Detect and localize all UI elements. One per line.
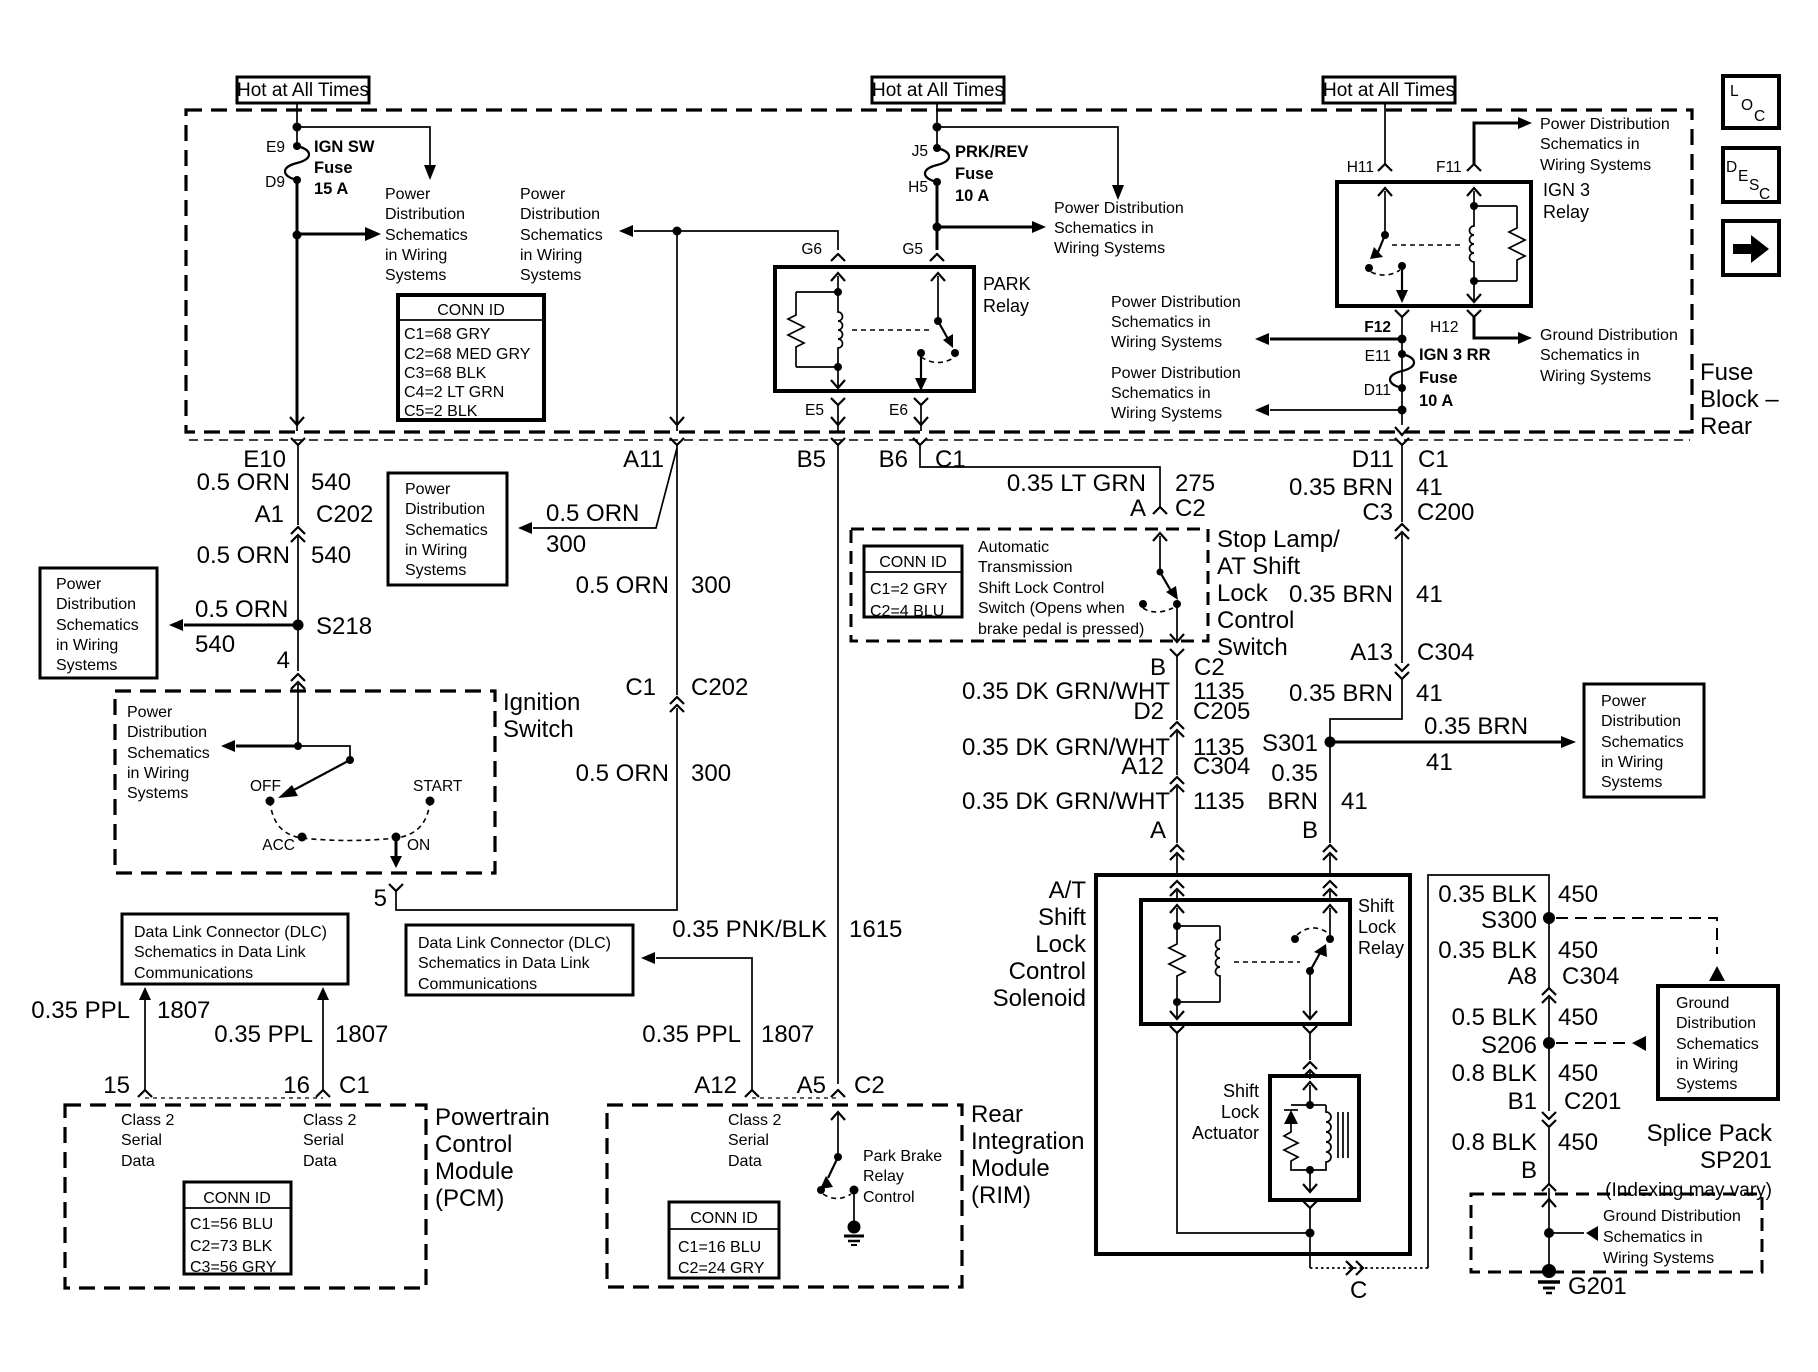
conn id table (PCM) <box>184 1182 291 1276</box>
svg-text:Schematics in: Schematics in <box>1603 1229 1703 1246</box>
wire: arrow left to Power Distribution (ignition switch) <box>221 740 298 752</box>
svg-text:S206: S206 <box>1481 1032 1537 1059</box>
pin label B (solenoid) <box>1302 817 1318 844</box>
svg-text:OFF: OFF <box>250 778 281 795</box>
pin labels C3 / C200 <box>1362 499 1474 526</box>
ground symbol inside RIM <box>844 1190 864 1245</box>
svg-text:ON: ON <box>407 837 430 854</box>
svg-text:Automatic: Automatic <box>978 539 1049 556</box>
svg-text:Integration: Integration <box>971 1128 1084 1155</box>
wire: fuse output down to G5 (bold) <box>936 182 939 250</box>
svg-text:450: 450 <box>1558 1129 1598 1156</box>
svg-text:Schematics in: Schematics in <box>1540 347 1640 364</box>
svg-text:Ground Distribution: Ground Distribution <box>1540 327 1678 344</box>
svg-text:C304: C304 <box>1417 639 1474 666</box>
svg-text:41: 41 <box>1416 474 1443 501</box>
svg-text:450: 450 <box>1558 1004 1598 1031</box>
wire: solenoid return to connector C (dotted) <box>1310 1267 1428 1269</box>
svg-text:C2=4 BLU: C2=4 BLU <box>870 603 944 620</box>
svg-text:A12: A12 <box>694 1072 737 1099</box>
stop lamp switch entry arrow <box>1153 533 1167 572</box>
park brake relay control switch entry arrow <box>831 1112 845 1157</box>
pin labels A12 / C304 <box>1121 753 1250 780</box>
wire label 0.8 BLK 450 (upper) <box>1452 1060 1598 1087</box>
svg-text:Systems: Systems <box>1601 774 1662 791</box>
svg-text:Splice Pack: Splice Pack <box>1647 1120 1773 1147</box>
svg-text:Fuse: Fuse <box>955 165 994 183</box>
svg-text:Wiring Systems: Wiring Systems <box>1603 1250 1714 1267</box>
junction node D11 <box>1398 406 1407 415</box>
svg-text:Lock: Lock <box>1221 1102 1260 1122</box>
wire label 0.35 DK GRN/WHT 1135 (middle) <box>962 734 1245 761</box>
ground G201 <box>1538 1264 1627 1300</box>
actuator resistor <box>1284 1124 1310 1170</box>
svg-text:0.35 PPL: 0.35 PPL <box>642 1021 741 1048</box>
park relay: component box <box>775 267 974 391</box>
wire: Hot1 feed down into fuse block <box>296 103 298 146</box>
svg-text:0.8 BLK: 0.8 BLK <box>1452 1129 1537 1156</box>
svg-text:Switch: Switch <box>503 716 574 743</box>
svg-text:Schematics in: Schematics in <box>1054 220 1154 237</box>
shift lock relay: component box <box>1141 900 1350 1024</box>
svg-text:0.5 ORN: 0.5 ORN <box>546 500 639 527</box>
wire: branch right to Power Distribution (down arrow) <box>937 127 1124 200</box>
svg-text:0.35 PPL: 0.35 PPL <box>214 1021 313 1048</box>
wire: ON output arrow down <box>390 841 402 868</box>
svg-text:START: START <box>413 778 463 795</box>
splice S301 <box>1262 730 1336 757</box>
pin labels D2 / C205 <box>1133 698 1250 725</box>
shift lock relay resistor <box>1169 926 1185 1002</box>
IGN3 relay: H11 feed from Hot3 <box>1384 103 1386 164</box>
svg-text:Schematics: Schematics <box>1601 734 1684 751</box>
splice S206 <box>1481 1032 1555 1059</box>
ign3 relay switch output arrow (to F12) <box>1396 266 1408 303</box>
park brake switch pivot and blade <box>820 1153 842 1189</box>
svg-text:Wiring Systems: Wiring Systems <box>1111 405 1222 422</box>
connector pins into RIM <box>745 1090 845 1098</box>
svg-text:in Wiring: in Wiring <box>127 765 189 782</box>
svg-text:0.5 ORN: 0.5 ORN <box>197 469 290 496</box>
svg-text:Lock: Lock <box>1358 917 1397 937</box>
dashed reference from S300 to Ground Distribution box <box>1556 918 1725 981</box>
contact ACC <box>262 833 306 855</box>
in-line connector C201 (B1, pointing down) <box>1542 1112 1556 1184</box>
svg-text:ACC: ACC <box>262 837 295 854</box>
wire: arrow right to Power Distribution <box>297 227 381 241</box>
pin label H5 <box>908 179 928 196</box>
svg-text:in Wiring: in Wiring <box>1676 1056 1738 1073</box>
note text: Power Distribution Schematics in Wiring Systems (middle) <box>1054 200 1184 257</box>
svg-text:275: 275 <box>1175 470 1215 497</box>
svg-text:CONN ID: CONN ID <box>203 1190 271 1207</box>
note text: Power Distribution Schematics in Wiring Systems (ign3 lower) <box>1111 365 1241 422</box>
contact START <box>413 778 463 806</box>
label box: Hot at All Times (middle) <box>872 77 1004 103</box>
wire label 0.35 PPL 1807 (A12) <box>642 1021 814 1048</box>
svg-text:0.35 BRN: 0.35 BRN <box>1424 713 1528 740</box>
svg-text:540: 540 <box>311 469 351 496</box>
stop lamp switch output arrow <box>1170 604 1184 642</box>
svg-text:F12: F12 <box>1364 319 1391 336</box>
in-line connector C304 (A8) <box>1542 988 1556 1111</box>
shift lock relay actuation dashed link <box>1234 961 1300 963</box>
svg-text:0.35 BLK: 0.35 BLK <box>1438 881 1537 908</box>
A/T shift lock control solenoid: component box <box>1096 875 1410 1254</box>
svg-text:0.35 BRN: 0.35 BRN <box>1289 680 1393 707</box>
svg-text:Power: Power <box>520 186 566 203</box>
svg-text:S: S <box>1749 177 1759 194</box>
shift lock relay name label <box>1358 896 1404 958</box>
shift lock relay coil exit arrow <box>1170 1002 1184 1019</box>
wire label 0.5 BLK 450 <box>1452 1004 1598 1031</box>
svg-text:Switch: Switch <box>1217 634 1288 661</box>
connector E10 (fuse block C1) <box>291 438 305 525</box>
svg-text:C2: C2 <box>854 1072 885 1099</box>
wire: S301 arrow right to Power Distribution <box>1330 713 1576 776</box>
pin labels B1 / C201 <box>1508 1088 1622 1115</box>
svg-text:15: 15 <box>103 1072 130 1099</box>
svg-text:Distribution: Distribution <box>385 206 465 223</box>
shift lock relay switch top contact, open contact and travel arc <box>1291 928 1334 943</box>
svg-text:Schematics in Data Link: Schematics in Data Link <box>418 955 591 972</box>
value label: PRK/REV Fuse 10 A <box>955 143 1028 205</box>
svg-text:C: C <box>1754 108 1765 125</box>
svg-text:0.35 BLK: 0.35 BLK <box>1438 937 1537 964</box>
shift lock relay coil node (top) <box>1173 922 1181 930</box>
shift lock actuator: component box <box>1270 1076 1359 1200</box>
svg-text:Systems: Systems <box>520 267 581 284</box>
pin label E9 <box>266 139 285 156</box>
svg-text:0.35 PPL: 0.35 PPL <box>31 997 130 1024</box>
svg-text:Class 2: Class 2 <box>303 1112 356 1129</box>
svg-text:Serial: Serial <box>303 1132 344 1149</box>
wire: to rotor pivot <box>298 746 354 764</box>
svg-text:BRN: BRN <box>1267 788 1318 815</box>
svg-text:Lock: Lock <box>1035 931 1087 958</box>
svg-text:C304: C304 <box>1193 753 1250 780</box>
svg-text:Control: Control <box>435 1131 512 1158</box>
svg-text:G201: G201 <box>1568 1273 1627 1300</box>
label box: Hot at All Times (left) <box>237 77 369 103</box>
pin label 15 <box>103 1072 130 1099</box>
wire label 0.5 ORN 540 (above C202) <box>197 469 351 496</box>
svg-text:IGN SW: IGN SW <box>314 138 375 156</box>
svg-text:Data Link Connector (DLC): Data Link Connector (DLC) <box>418 935 611 952</box>
svg-text:O: O <box>1741 97 1753 114</box>
svg-text:C5=2 BLK: C5=2 BLK <box>404 403 478 420</box>
nav box LOC <box>1723 76 1779 128</box>
pin label E11 <box>1365 348 1391 365</box>
svg-text:1807: 1807 <box>761 1021 814 1048</box>
svg-text:C3=56 GRY: C3=56 GRY <box>190 1259 277 1276</box>
actuator coil <box>1310 1105 1331 1170</box>
svg-text:Communications: Communications <box>134 965 253 982</box>
svg-text:C2=24 GRY: C2=24 GRY <box>678 1260 765 1277</box>
connector G5 (park relay) <box>902 241 944 261</box>
note text: Ground Distribution Schematics in Wiring Systems (right) <box>1540 327 1678 385</box>
svg-text:Shift: Shift <box>1358 896 1394 916</box>
connector pins into PCM <box>138 1090 330 1098</box>
note text: Class 2 Serial Data (pin 15) <box>121 1112 174 1170</box>
wire: up right side to splice pack <box>1428 875 1549 1268</box>
ign3 relay coil <box>1470 206 1517 281</box>
wire label 0.35 PPL 1807 (pin 16) <box>214 1021 388 1048</box>
connector A11 (fuse block C1) <box>623 438 684 695</box>
svg-text:Systems: Systems <box>127 785 188 802</box>
fuse block rear: name label <box>1700 359 1779 440</box>
svg-text:300: 300 <box>691 760 731 787</box>
splice S300 <box>1481 907 1555 934</box>
wire label 0.35 BLK 450 (second) <box>1438 937 1598 964</box>
in-line connector at solenoid pin A <box>1170 845 1184 877</box>
svg-text:41: 41 <box>1341 788 1368 815</box>
pin label A12 (RIM) <box>694 1072 737 1099</box>
shift lock relay switch entry arrow <box>1323 905 1337 939</box>
svg-text:Control: Control <box>1217 607 1294 634</box>
wire: A13 down, jog left to S301 <box>1330 679 1402 737</box>
wire: E5 crossing arrow at fuse block bottom <box>831 417 845 431</box>
svg-text:S218: S218 <box>316 613 372 640</box>
connector G6 (park relay) <box>801 241 845 261</box>
shift lock relay switch output arrow <box>1303 971 1317 1019</box>
svg-text:Control: Control <box>863 1189 915 1206</box>
wire: crossing arrow at fuse block bottom (E10) <box>290 417 304 431</box>
splice pack entry arrow <box>1542 1199 1556 1207</box>
svg-text:C2=73 BLK: C2=73 BLK <box>190 1238 273 1255</box>
ign3 relay switch entry arrow <box>1378 188 1392 235</box>
svg-text:Power Distribution: Power Distribution <box>1540 116 1670 133</box>
svg-text:Distribution: Distribution <box>127 724 207 741</box>
connector F11 (ign3 relay) <box>1436 159 1481 176</box>
connector below relay (coil side) <box>1170 1026 1306 1233</box>
splice pack name label <box>1605 1120 1773 1201</box>
note text: Class 2 Serial Data (RIM) <box>728 1112 781 1170</box>
ign3 relay coil node (top) <box>1470 202 1478 210</box>
svg-text:A8: A8 <box>1508 963 1537 990</box>
svg-text:C1: C1 <box>1418 446 1449 473</box>
ign3 relay name label <box>1543 180 1590 222</box>
ign3 relay resistor <box>1509 206 1525 281</box>
ignition switch rotor arm (arrow to OFF) <box>278 760 350 798</box>
connector B entering splice pack <box>1542 1184 1556 1271</box>
in-line connector C202 (C1) <box>670 697 684 712</box>
svg-text:IGN 3: IGN 3 <box>1543 180 1590 200</box>
svg-text:Rear: Rear <box>1700 413 1752 440</box>
svg-text:S301: S301 <box>1262 730 1318 757</box>
svg-text:Fuse: Fuse <box>1700 359 1753 386</box>
svg-text:C1: C1 <box>935 446 966 473</box>
svg-text:450: 450 <box>1558 937 1598 964</box>
svg-text:0.5 ORN: 0.5 ORN <box>197 542 290 569</box>
ign3 relay: component box <box>1337 182 1531 306</box>
svg-text:C304: C304 <box>1562 963 1619 990</box>
in-line connector C304 (A13) <box>1395 664 1409 679</box>
wire: crossing arrow at fuse block bottom (D11) <box>1395 427 1409 435</box>
svg-text:B1: B1 <box>1508 1088 1537 1115</box>
wire (S218 down) + pin label 4 <box>277 627 298 674</box>
shift lock actuator name label <box>1192 1081 1260 1143</box>
svg-text:B: B <box>1521 1157 1537 1184</box>
junction node above PRK/REV fuse <box>933 123 942 132</box>
svg-text:0.5 BLK: 0.5 BLK <box>1452 1004 1537 1031</box>
park relay coil node (bottom) <box>834 363 842 371</box>
svg-text:0.35 DK GRN/WHT: 0.35 DK GRN/WHT <box>962 788 1170 815</box>
junction node F12/E11 <box>1398 335 1407 344</box>
note box: Power Distribution Schematics in Wiring Systems (boxed, far left) <box>40 568 157 678</box>
svg-text:Schematics in Data Link: Schematics in Data Link <box>134 944 307 961</box>
park relay coil exit arrow <box>831 367 845 388</box>
svg-text:16: 16 <box>283 1072 310 1099</box>
in-line connector C205 <box>1170 722 1184 775</box>
RIM: dashed boundary box <box>607 1105 962 1287</box>
wire label 0.35 LT GRN 275 <box>1007 470 1215 497</box>
note text: Ground Distribution Schematics in Wiring Systems (in splice pack) <box>1603 1208 1741 1267</box>
svg-text:0.8 BLK: 0.8 BLK <box>1452 1060 1537 1087</box>
svg-text:Transmission: Transmission <box>978 559 1073 576</box>
wire label 0.5 ORN 300 (below C202 pin C1) <box>576 760 731 787</box>
in-line connector at ignition switch pin 4 <box>291 674 305 746</box>
stop lamp switch lower contact and actuator dot <box>1139 600 1181 612</box>
connector A / C2 (stop lamp switch) <box>1130 495 1206 522</box>
svg-text:Power Distribution: Power Distribution <box>1111 294 1241 311</box>
svg-text:C202: C202 <box>316 501 373 528</box>
svg-text:CONN ID: CONN ID <box>437 302 505 319</box>
svg-text:Module: Module <box>435 1158 514 1185</box>
svg-text:in Wiring: in Wiring <box>520 247 582 264</box>
svg-text:Distribution: Distribution <box>56 596 136 613</box>
svg-text:Ground: Ground <box>1676 995 1729 1012</box>
pin labels A13 / C304 <box>1350 639 1474 666</box>
wire: S218 branch left arrow to Power Distribution <box>169 596 298 658</box>
svg-text:540: 540 <box>195 631 235 658</box>
svg-text:Communications: Communications <box>418 976 537 993</box>
ignition switch: dashed boundary box <box>115 691 495 873</box>
fuse F-E9/D9: IGN SW Fuse 15 A <box>285 142 309 184</box>
svg-text:0.5 ORN: 0.5 ORN <box>576 760 669 787</box>
svg-text:E5: E5 <box>805 402 824 419</box>
wire: A11 feed inside fuse block down to border <box>676 231 678 424</box>
svg-text:1807: 1807 <box>335 1021 388 1048</box>
svg-text:Shift: Shift <box>1223 1081 1259 1101</box>
wire: branch right to Power Distribution (down arrow) <box>297 127 436 180</box>
svg-text:300: 300 <box>691 572 731 599</box>
svg-text:S300: S300 <box>1481 907 1537 934</box>
pin label J5 <box>912 143 928 160</box>
ign3 relay switch contacts and travel arc <box>1365 262 1406 275</box>
in-line connector C304 (A12) <box>1170 777 1184 843</box>
svg-text:Power: Power <box>385 186 431 203</box>
svg-text:C1=68 GRY: C1=68 GRY <box>404 326 491 343</box>
svg-text:Park Brake: Park Brake <box>863 1148 942 1165</box>
wire label 0.35 PNK/BLK 1615 (B5 wire) <box>672 916 902 943</box>
pin label D9 <box>265 174 285 191</box>
pin label A (solenoid) <box>1150 817 1166 844</box>
svg-text:C3: C3 <box>1362 499 1393 526</box>
svg-text:Hot at All Times: Hot at All Times <box>1323 80 1455 101</box>
connector D11 / C1 (fuse block) <box>1352 438 1449 522</box>
svg-text:H11: H11 <box>1347 159 1374 176</box>
svg-text:B: B <box>1150 654 1166 681</box>
svg-text:0.35: 0.35 <box>1271 760 1318 787</box>
svg-text:A1: A1 <box>255 501 284 528</box>
reference arrow to Ground Distribution text <box>1549 1226 1598 1241</box>
fuse F-E11/D11: IGN 3 RR Fuse 10 A <box>1390 350 1414 392</box>
junction node above IGN SW fuse <box>293 123 302 132</box>
park relay switch pivot and blade <box>934 317 953 348</box>
wire: Hot2 feed down <box>936 103 938 148</box>
switch travel dashed arc OFF-ACC-ON-START <box>270 801 430 841</box>
PCM name label <box>435 1104 550 1212</box>
svg-text:A13: A13 <box>1350 639 1393 666</box>
svg-text:Fuse: Fuse <box>314 159 353 177</box>
svg-text:E9: E9 <box>266 139 285 156</box>
svg-text:Switch (Opens when: Switch (Opens when <box>978 600 1125 617</box>
svg-text:Systems: Systems <box>1676 1076 1737 1093</box>
svg-text:Schematics: Schematics <box>385 227 468 244</box>
splice S218 <box>293 613 373 640</box>
pin labels A5 / C2 (RIM) <box>797 1072 885 1099</box>
svg-text:Class 2: Class 2 <box>728 1112 781 1129</box>
svg-text:4: 4 <box>277 647 290 674</box>
connector: ignition switch pin 5 <box>374 708 677 912</box>
svg-text:E11: E11 <box>1365 348 1391 365</box>
wire label 0.5 ORN 300 (above C202 pin C1) <box>576 572 731 599</box>
svg-text:5: 5 <box>374 885 387 912</box>
park relay actuation dashed link <box>852 329 933 331</box>
svg-text:Systems: Systems <box>385 267 446 284</box>
in-line connector C <box>1346 1261 1367 1304</box>
conn id table (fuse block) <box>398 295 544 420</box>
ign3 relay coil entry arrow <box>1467 188 1481 206</box>
svg-text:Hot at All Times: Hot at All Times <box>237 80 369 101</box>
svg-text:A11: A11 <box>623 446 664 473</box>
svg-text:IGN 3 RR: IGN 3 RR <box>1419 346 1491 364</box>
svg-text:Power: Power <box>127 704 173 721</box>
note box: Data Link Connector (DLC) Schematics (left) <box>122 914 348 984</box>
value label: IGN 3 RR Fuse 10 A <box>1419 346 1491 410</box>
note text: Park Brake Relay Control <box>863 1148 942 1206</box>
in-line connector C200 <box>1395 524 1409 663</box>
fuse F-J5/H5: PRK/REV Fuse 10 A <box>925 144 949 186</box>
wire label 0.35 BRN 41 (second) <box>1289 581 1443 608</box>
svg-text:B: B <box>1302 817 1318 844</box>
junction node in ignition switch <box>294 742 302 750</box>
note text: Automatic Transmission Shift Lock Control Switch <box>978 539 1144 638</box>
wire: A11 diagonal branch to Power Distribution arrow <box>518 448 677 558</box>
svg-text:540: 540 <box>311 542 351 569</box>
connector E5 (park relay) <box>805 398 845 424</box>
connector below relay (switch side) <box>1303 1026 1317 1060</box>
contact OFF <box>250 778 281 806</box>
note text: Power Distribution Schematics in Wiring Systems (ign3 upper) <box>1111 294 1241 351</box>
svg-text:10 A: 10 A <box>955 187 989 205</box>
svg-text:1807: 1807 <box>157 997 210 1024</box>
note text: Power Distribution Schematics in Wiring Systems (top right) <box>1540 116 1670 174</box>
svg-text:in Wiring: in Wiring <box>56 637 118 654</box>
svg-text:Class 2: Class 2 <box>121 1112 174 1129</box>
wire label 0.5 ORN 540 (below C202) <box>197 542 351 569</box>
svg-text:C1: C1 <box>339 1072 370 1099</box>
ign3 relay actuation dashed link <box>1392 244 1462 246</box>
park relay switch entry arrow <box>931 273 945 321</box>
park relay coil <box>796 292 843 367</box>
svg-text:Solenoid: Solenoid <box>993 985 1086 1012</box>
shift lock relay coil <box>1177 926 1220 1002</box>
svg-text:G6: G6 <box>801 241 822 258</box>
wire: arrow right to Power Distribution (middle) <box>937 221 1046 233</box>
svg-text:Schematics in: Schematics in <box>1111 314 1211 331</box>
